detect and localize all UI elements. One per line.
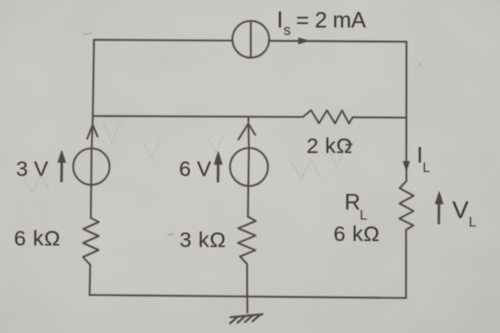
wire right vertical upper bbox=[405, 42, 407, 161]
svg-text:= 2 mA: = 2 mA bbox=[296, 7, 366, 32]
node left bus junction bbox=[92, 116, 94, 125]
current source internal bar bbox=[250, 21, 252, 58]
arrowhead source V2 wire bbox=[238, 124, 255, 140]
wire right middle bbox=[405, 168, 407, 181]
svg-text:L: L bbox=[423, 160, 431, 175]
arrow VL (annotation) bbox=[438, 202, 441, 223]
wire left vertical upper bbox=[93, 40, 94, 116]
wire ground stub bbox=[246, 297, 248, 313]
svg-text:6 V: 6 V bbox=[179, 157, 212, 181]
wire top-right segment bbox=[269, 40, 406, 43]
wire left lower bbox=[89, 265, 92, 295]
svg-text:2 kΩ: 2 kΩ bbox=[307, 134, 353, 158]
arrowhead IL direction bbox=[403, 162, 409, 171]
svg-text:3 V: 3 V bbox=[16, 157, 49, 181]
wire through V1 circle bbox=[90, 148, 93, 218]
stray dash after 2 kOhm bbox=[346, 143, 353, 146]
resistor RL zigzag bbox=[399, 181, 413, 230]
wire bottom bus bbox=[90, 295, 406, 298]
voltage source V2 circle bbox=[230, 148, 268, 186]
voltage source V1 circle bbox=[73, 148, 109, 184]
svg-text:3 kΩ: 3 kΩ bbox=[180, 228, 227, 252]
svg-text:L: L bbox=[360, 208, 368, 223]
svg-text:L: L bbox=[469, 215, 477, 230]
svg-text:6 kΩ: 6 kΩ bbox=[14, 227, 61, 251]
wire right lower bbox=[405, 230, 407, 298]
ground symbol bbox=[230, 314, 263, 323]
svg-text:s: s bbox=[284, 23, 291, 39]
wire through V2 circle bbox=[248, 148, 249, 217]
arrow 3V (annotation) bbox=[60, 160, 63, 181]
current source IS circle bbox=[232, 21, 269, 58]
wire top-left segment bbox=[94, 39, 232, 42]
resistor 3k middle zigzag bbox=[238, 217, 256, 264]
resistor R 6k left zigzag bbox=[83, 218, 99, 265]
svg-text:V: V bbox=[452, 197, 469, 224]
wire middle lower bbox=[246, 264, 248, 297]
wire V2 to circle bbox=[247, 124, 250, 148]
svg-text:6 kΩ: 6 kΩ bbox=[334, 222, 380, 246]
arrowhead source V1 wire bbox=[87, 125, 98, 139]
wire V1 to circle bbox=[91, 126, 94, 148]
svg-text:I: I bbox=[277, 7, 283, 33]
faint bleed-through ghost marks bbox=[83, 34, 421, 235]
arrow 6V (annotation) bbox=[217, 162, 220, 181]
wire middle vertical top stub bbox=[247, 117, 249, 122]
wire middle bus (second horizontal) bbox=[93, 116, 406, 118]
svg-text:R: R bbox=[345, 190, 361, 215]
resistor 2k horizontal zigzag bbox=[303, 110, 353, 123]
arrowhead IS direction bbox=[299, 38, 309, 44]
